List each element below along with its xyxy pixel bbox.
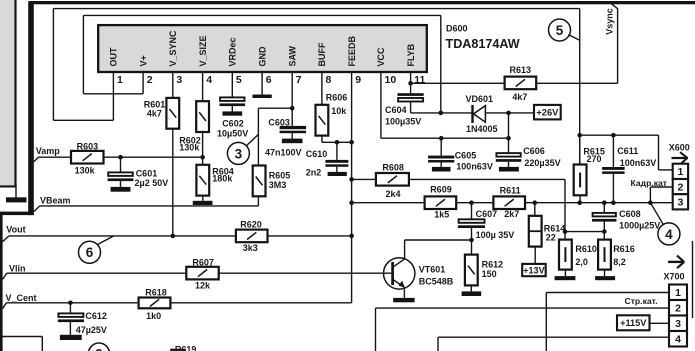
junction C607 top bbox=[469, 200, 474, 205]
schematic border top bbox=[29, 1, 695, 4]
svg-text:R608: R608 bbox=[382, 163, 404, 173]
pin stub of cut-off left block bbox=[15, 188, 17, 198]
svg-text:VT601: VT601 bbox=[419, 265, 446, 275]
svg-text:12k: 12k bbox=[195, 281, 211, 291]
svg-text:GND: GND bbox=[257, 46, 267, 67]
wire pin4 to R602 bbox=[202, 72, 204, 102]
junction FLYB pin11 bbox=[408, 81, 413, 86]
svg-text:8: 8 bbox=[326, 74, 332, 86]
svg-text:2n2: 2n2 bbox=[306, 167, 322, 177]
svg-text:10µ50V: 10µ50V bbox=[217, 129, 248, 139]
svg-text:7: 7 bbox=[296, 74, 302, 86]
svg-text:X600: X600 bbox=[669, 143, 690, 153]
svg-text:11: 11 bbox=[414, 74, 425, 86]
page reference circle 6 bbox=[79, 236, 114, 263]
cut-off wire bottom left bbox=[3, 337, 43, 351]
ground C612 bbox=[60, 335, 82, 340]
svg-text:6: 6 bbox=[86, 245, 94, 260]
ground VT601 emitter bbox=[393, 298, 414, 302]
capacitor C602 bbox=[220, 97, 246, 106]
wire V_Cent entry bbox=[3, 303, 139, 309]
svg-text:2: 2 bbox=[677, 181, 683, 193]
wire SAW to R605 bbox=[258, 108, 292, 166]
wire FLYB to R613 bbox=[411, 82, 505, 84]
svg-text:100µ 35V: 100µ 35V bbox=[476, 230, 515, 240]
svg-text:2: 2 bbox=[147, 74, 153, 86]
resistor R605 bbox=[253, 166, 266, 197]
svg-text:C608: C608 bbox=[619, 209, 641, 219]
svg-text:VCC: VCC bbox=[376, 47, 386, 67]
wire VCC pin10 rail bbox=[381, 72, 509, 138]
svg-text:V+: V+ bbox=[138, 55, 148, 66]
wire C611 top stub bbox=[612, 135, 614, 167]
svg-text:Vamp: Vamp bbox=[36, 146, 61, 156]
svg-text:C610: C610 bbox=[306, 149, 328, 159]
svg-text:4: 4 bbox=[665, 227, 673, 242]
capacitor C601 bbox=[108, 172, 134, 181]
voltage source +26V bbox=[534, 105, 561, 120]
svg-text:150: 150 bbox=[482, 269, 497, 279]
resistor R613 bbox=[505, 77, 537, 90]
diode VD601 1N4005 bbox=[473, 105, 486, 123]
resistor R604 bbox=[196, 165, 209, 196]
wire C605 to ground bbox=[440, 163, 442, 167]
wire C612 to ground bbox=[69, 322, 71, 335]
junction R601/Vout bbox=[171, 234, 176, 239]
svg-text:TDA8174AW: TDA8174AW bbox=[446, 37, 520, 51]
svg-text:100n63V: 100n63V bbox=[620, 158, 657, 168]
connector X700 pin 4 bbox=[669, 331, 687, 347]
svg-text:Vlin: Vlin bbox=[9, 264, 26, 274]
wire C602 to ground bbox=[231, 106, 233, 111]
svg-text:5: 5 bbox=[556, 23, 564, 38]
svg-text:1k0: 1k0 bbox=[146, 311, 161, 321]
svg-text:Vsync: Vsync bbox=[604, 8, 614, 35]
cut-off resistor box at bottom bbox=[171, 350, 184, 351]
resistor R607 bbox=[186, 267, 218, 280]
ground C610 bbox=[328, 172, 347, 176]
wire C606 stub bbox=[508, 138, 510, 153]
wire R602 to Vamp line bbox=[202, 132, 204, 158]
transistor Q1 VT601 BC548B bbox=[384, 258, 415, 289]
ground bar of cut-off left block bbox=[6, 197, 27, 202]
svg-text:BC548B: BC548B bbox=[419, 276, 454, 286]
svg-text:R611: R611 bbox=[500, 185, 521, 195]
junction VCC/+26V/C606 bbox=[506, 136, 511, 141]
voltage source +13V bbox=[522, 264, 546, 276]
wire pin8 to R606 bbox=[321, 72, 323, 105]
svg-text:Vout: Vout bbox=[6, 224, 25, 234]
junction FEEDB/R608 bbox=[349, 177, 354, 182]
junction FEEDB/R609 bbox=[349, 200, 354, 205]
svg-text:V_Cent: V_Cent bbox=[6, 293, 37, 303]
svg-text:4: 4 bbox=[206, 74, 212, 86]
wire Vamp entry bbox=[34, 157, 71, 162]
wire stub right of X700 bbox=[692, 241, 694, 318]
wire R613 to Vsync exit bbox=[536, 8, 617, 83]
svg-text:+115V: +115V bbox=[620, 318, 647, 328]
wire OUT to yoke connector bbox=[580, 135, 673, 170]
svg-text:10k: 10k bbox=[331, 106, 347, 116]
svg-text:V_SYNC: V_SYNC bbox=[168, 30, 178, 67]
wire R606 to FEEDB bbox=[322, 135, 352, 142]
resistor R614 bbox=[529, 216, 542, 247]
svg-text:4k7: 4k7 bbox=[147, 109, 162, 119]
junction C608 bottom/R616 bbox=[602, 229, 607, 234]
svg-text:130k: 130k bbox=[179, 143, 200, 153]
svg-text:VRDec: VRDec bbox=[228, 37, 238, 66]
junction OUT/R615/C611 wire bbox=[577, 133, 582, 138]
svg-text:R620: R620 bbox=[240, 220, 262, 230]
svg-text:1: 1 bbox=[677, 166, 683, 178]
svg-text:9: 9 bbox=[95, 346, 103, 351]
svg-text:R606: R606 bbox=[326, 93, 348, 103]
arrow symbol X600 bbox=[672, 152, 688, 165]
ground C601 bbox=[111, 187, 131, 192]
resistor R616 bbox=[598, 240, 611, 270]
wire emitter to ground bbox=[403, 287, 405, 298]
wire +26V branch down to VCC rail bbox=[508, 113, 510, 138]
ground C605 bbox=[432, 167, 451, 172]
svg-text:VD601: VD601 bbox=[466, 94, 494, 104]
svg-text:+26V: +26V bbox=[536, 107, 559, 117]
svg-text:47n100V: 47n100V bbox=[265, 147, 302, 157]
wire R614 to +13V bbox=[534, 247, 536, 264]
svg-text:1N4005: 1N4005 bbox=[466, 124, 498, 134]
wire FEEDB to R609 bbox=[352, 202, 425, 204]
svg-text:C601: C601 bbox=[136, 168, 158, 178]
svg-text:R607: R607 bbox=[192, 257, 214, 267]
svg-text:C606: C606 bbox=[523, 146, 545, 156]
wire R610 to ground bbox=[564, 270, 566, 277]
wire C606 to ground bbox=[508, 162, 510, 167]
page reference circle 5 bbox=[549, 19, 580, 41]
svg-text:R616: R616 bbox=[613, 244, 635, 254]
wire C604 bottom to V+ rail bbox=[411, 103, 472, 113]
junction C611 bottom bbox=[611, 200, 616, 205]
wire Vlin entry bbox=[3, 273, 187, 279]
IC U1 D600 TDA8174AW body bbox=[98, 25, 427, 72]
wire pin6 to ground bbox=[261, 72, 263, 95]
resistor R602 bbox=[196, 101, 209, 132]
wire Vamp to R604 bbox=[202, 157, 204, 164]
wire R601 to Vout line bbox=[172, 129, 174, 236]
svg-text:47µ25V: 47µ25V bbox=[76, 325, 107, 335]
resistor R615 bbox=[574, 165, 587, 196]
voltage source +115V bbox=[617, 315, 650, 330]
svg-text:8,2: 8,2 bbox=[613, 257, 626, 267]
wire R604 to ground bbox=[202, 196, 204, 201]
svg-text:3M3: 3M3 bbox=[269, 180, 287, 190]
svg-text:BUFF: BUFF bbox=[317, 42, 327, 66]
wire C607 stub bbox=[471, 203, 473, 220]
capacitor C604 bbox=[398, 93, 424, 101]
wire FEEDB to R608 bbox=[352, 178, 376, 180]
svg-text:+13V: +13V bbox=[523, 265, 544, 275]
wire R612 to ground bbox=[470, 285, 472, 291]
junction C605 top bbox=[439, 136, 444, 141]
wire C605 stub bbox=[440, 138, 442, 155]
svg-text:220µ35V: 220µ35V bbox=[524, 158, 560, 168]
wire FEEDB vertical bbox=[351, 72, 353, 303]
wire R616 to ground bbox=[604, 270, 606, 277]
svg-text:R610: R610 bbox=[575, 244, 597, 254]
junction +26V branch bbox=[506, 111, 511, 116]
svg-text:2µ2 50V: 2µ2 50V bbox=[135, 178, 169, 188]
wire C607 to collector rail bbox=[405, 228, 472, 258]
connector X700 pin 1 bbox=[669, 285, 687, 301]
svg-text:R618: R618 bbox=[145, 288, 167, 298]
resistor R610 bbox=[559, 240, 572, 270]
connector X600 pin 3 bbox=[673, 194, 688, 209]
wire R610/R616/C608 bus bbox=[565, 231, 604, 233]
resistor R611 bbox=[493, 196, 525, 209]
page reference circle 4 bbox=[650, 203, 680, 245]
capacitor C608 bbox=[592, 213, 617, 222]
wire X700-1 bbox=[546, 293, 669, 351]
junction FEEDB/R606 wire bbox=[349, 140, 354, 145]
svg-text:6: 6 bbox=[266, 74, 272, 86]
wire C612 stub bbox=[69, 303, 71, 314]
svg-text:1000µ25V: 1000µ25V bbox=[619, 221, 660, 231]
wire C603 to ground bbox=[291, 133, 293, 138]
svg-text:R619: R619 bbox=[175, 345, 197, 351]
svg-text:4k7: 4k7 bbox=[512, 92, 527, 102]
capacitor C606 bbox=[496, 153, 522, 162]
wire Vout entry bbox=[3, 236, 237, 242]
junction C610 top bbox=[335, 140, 340, 145]
svg-text:X700: X700 bbox=[664, 271, 685, 281]
arrow symbol X700 bbox=[668, 256, 684, 269]
svg-text:2,0: 2,0 bbox=[575, 257, 588, 267]
ground pin6 bbox=[252, 95, 271, 99]
capacitor C611 bbox=[602, 167, 624, 174]
wire pin3 to R601 bbox=[172, 72, 174, 98]
junction V+/C604/VD601 bbox=[439, 111, 444, 116]
wire X700-2 bbox=[376, 308, 670, 351]
svg-text:1: 1 bbox=[117, 74, 123, 86]
Vsync wire exit diagonal through border bbox=[611, 4, 617, 9]
svg-text:3: 3 bbox=[675, 318, 681, 330]
wire pin7 stub bbox=[291, 72, 293, 126]
wire R605 to VBeam bbox=[257, 196, 259, 206]
svg-text:1k5: 1k5 bbox=[434, 209, 449, 219]
adjustment reference circle 3 bbox=[227, 134, 258, 164]
svg-text:C603: C603 bbox=[268, 118, 290, 128]
wire R609 to R611 bbox=[456, 202, 494, 204]
svg-text:C607: C607 bbox=[476, 209, 498, 219]
svg-text:C604: C604 bbox=[385, 105, 407, 115]
svg-text:270: 270 bbox=[587, 154, 602, 164]
svg-text:3: 3 bbox=[235, 146, 243, 161]
wire C601 stub bbox=[120, 157, 122, 172]
junction C601 top bbox=[118, 155, 123, 160]
wire R603 to R602 junction bbox=[103, 156, 202, 158]
wire VD601 to +26V bbox=[485, 112, 534, 114]
svg-text:VBeam: VBeam bbox=[40, 195, 71, 205]
svg-text:3: 3 bbox=[176, 74, 182, 86]
svg-text:180k: 180k bbox=[212, 174, 233, 184]
resistor R620 bbox=[236, 230, 268, 243]
junction R602/R604/Vamp bbox=[200, 155, 205, 160]
svg-text:9: 9 bbox=[355, 74, 361, 86]
resistor R601 bbox=[166, 98, 179, 129]
wire R615 bottom stub bbox=[579, 195, 581, 202]
junction C612 top bbox=[68, 301, 73, 306]
svg-text:R613: R613 bbox=[510, 65, 532, 75]
svg-text:SAW: SAW bbox=[287, 45, 297, 66]
page reference circle 9 bbox=[89, 343, 110, 351]
resistor R608 bbox=[376, 173, 409, 186]
wire C610 to ground bbox=[336, 167, 338, 172]
ground C602 bbox=[222, 111, 242, 115]
junction R614 top bbox=[533, 200, 538, 205]
capacitor C612 bbox=[58, 313, 84, 322]
svg-text:100n63V: 100n63V bbox=[456, 162, 493, 172]
wire pin5 to C602 bbox=[231, 72, 233, 98]
wire C601 to ground bbox=[120, 181, 122, 187]
ground R612 bbox=[462, 291, 482, 296]
junction R615 bottom bbox=[577, 200, 582, 205]
cut-off IC block at left edge bbox=[0, 0, 17, 188]
wire C610 stub bbox=[336, 142, 338, 160]
svg-text:3: 3 bbox=[677, 197, 683, 209]
wire X600-2 branch bbox=[650, 187, 672, 203]
connector X700 pin 3 bbox=[669, 316, 687, 332]
wire C608 stub bbox=[603, 203, 605, 213]
svg-text:D600: D600 bbox=[446, 23, 468, 33]
ground C606 bbox=[499, 167, 519, 172]
ground R610 bbox=[555, 276, 576, 280]
junction SAW/C603/R605 bbox=[290, 106, 295, 111]
wire C611 bottom stub bbox=[612, 174, 614, 203]
resistor R612 bbox=[465, 255, 478, 286]
svg-text:Стр.кат.: Стр.кат. bbox=[625, 296, 658, 306]
wire R611 to X600-3 bbox=[525, 202, 673, 204]
resistor R618 bbox=[139, 298, 171, 309]
svg-text:4: 4 bbox=[675, 334, 681, 346]
resistor R609 bbox=[425, 196, 457, 209]
wire C608 to bus bbox=[603, 221, 605, 231]
wire R618 to FEEDB bbox=[170, 302, 351, 304]
wire V+ net pin2 loop bbox=[83, 15, 440, 113]
connector X600 pin 2 bbox=[673, 179, 688, 194]
wire X700-3 from +115V bbox=[650, 322, 670, 324]
svg-text:130k: 130k bbox=[75, 165, 96, 175]
svg-text:1: 1 bbox=[675, 287, 681, 299]
ground C603 bbox=[282, 139, 303, 144]
wire R614 stub bbox=[534, 203, 536, 216]
wire R607 to VT601 base bbox=[219, 272, 393, 274]
wire FLYB pin11 stub bbox=[410, 72, 412, 84]
capacitor C605 bbox=[428, 156, 454, 163]
junction R610 top/C608 wire bbox=[563, 229, 568, 234]
svg-text:2k7: 2k7 bbox=[504, 209, 519, 219]
wire OUT net pin1 loop bbox=[53, 9, 579, 166]
svg-text:V_SIZE: V_SIZE bbox=[198, 35, 208, 66]
svg-text:2k4: 2k4 bbox=[386, 189, 401, 199]
resistor R603 bbox=[71, 151, 104, 164]
junction C611 top bbox=[611, 133, 616, 138]
junction C607/R612/collector bbox=[469, 238, 474, 243]
capacitor C607 bbox=[458, 219, 485, 228]
capacitor C610 bbox=[325, 160, 348, 167]
svg-text:5: 5 bbox=[236, 74, 242, 86]
junction X600-2 branch bbox=[648, 200, 653, 205]
resistor R606 bbox=[316, 105, 329, 136]
ground R616 bbox=[595, 276, 615, 280]
wire pin11 to C604 bbox=[410, 83, 412, 93]
svg-text:3k3: 3k3 bbox=[243, 243, 258, 253]
svg-text:C602: C602 bbox=[222, 118, 244, 128]
schematic border left bbox=[0, 1, 34, 351]
wire R612 stub bbox=[471, 240, 473, 255]
junction C608 top bbox=[602, 200, 607, 205]
connector X600 pin 1 bbox=[673, 164, 688, 179]
wire X700-4 bbox=[438, 337, 669, 351]
svg-text:OUT: OUT bbox=[109, 47, 119, 67]
svg-text:R603: R603 bbox=[77, 142, 99, 152]
wire R616 stub bbox=[603, 232, 605, 240]
wire R608 to sense resistors bbox=[409, 179, 565, 239]
svg-text:2: 2 bbox=[675, 303, 681, 315]
svg-text:22: 22 bbox=[546, 233, 556, 243]
connector X700 pin 2 bbox=[669, 300, 687, 316]
junction FEEDB/R620 Vout bbox=[349, 234, 354, 239]
svg-text:C605: C605 bbox=[455, 150, 477, 160]
svg-text:FEEDB: FEEDB bbox=[347, 35, 357, 66]
svg-text:C611: C611 bbox=[617, 146, 638, 156]
wire R615 stub bbox=[579, 135, 581, 165]
svg-text:R609: R609 bbox=[430, 185, 452, 195]
svg-text:FLYB: FLYB bbox=[406, 43, 416, 66]
wire R620 to FEEDB bbox=[267, 235, 352, 237]
wire VBeam bbox=[34, 206, 259, 212]
svg-text:10: 10 bbox=[385, 74, 397, 86]
capacitor C603 bbox=[280, 126, 307, 133]
svg-text:C612: C612 bbox=[85, 311, 107, 321]
svg-text:100µ35V: 100µ35V bbox=[385, 116, 421, 126]
ground R604 bbox=[193, 201, 213, 205]
